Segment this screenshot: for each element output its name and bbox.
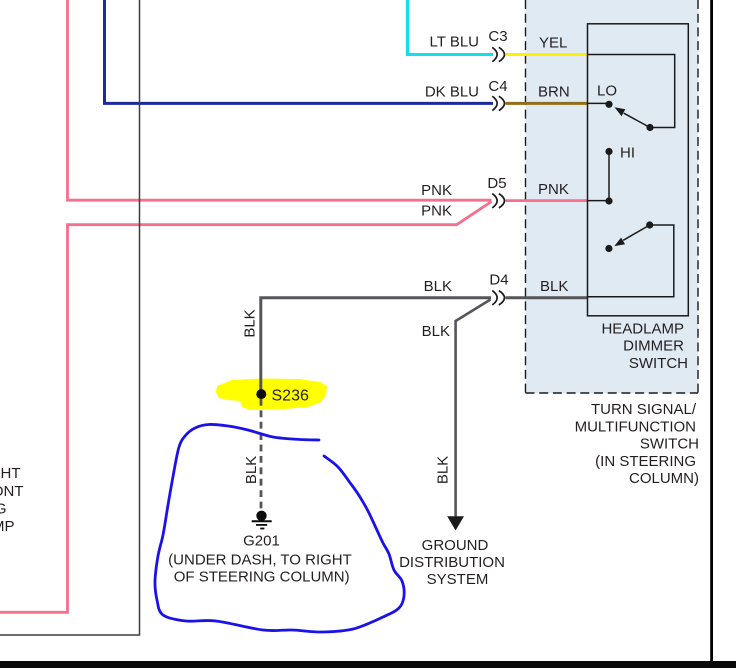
wire YEL (connector C3 to switch) <box>506 53 588 56</box>
svg-text:LO: LO <box>597 83 617 100</box>
wire internal HI to PNK <box>608 152 610 202</box>
wire internal BRN to LO contact <box>588 102 610 104</box>
wire internal LO loop <box>588 55 675 128</box>
wire BLK (connector D4 to switch) <box>506 296 588 299</box>
connector D5 <box>492 194 504 208</box>
svg-text:G201: G201 <box>243 533 280 550</box>
connector C4 <box>492 96 504 110</box>
svg-text:DIMMER: DIMMER <box>623 338 684 355</box>
svg-text:(UNDER DASH, TO RIGHT: (UNDER DASH, TO RIGHT <box>168 552 352 569</box>
connector D4 <box>492 291 504 305</box>
svg-text:BLK: BLK <box>422 323 450 340</box>
wire DK BLU <box>105 0 494 103</box>
svg-text:MP: MP <box>0 518 15 535</box>
svg-text:SWITCH: SWITCH <box>629 355 688 372</box>
svg-text:GROUND: GROUND <box>422 537 489 554</box>
svg-text:BLK: BLK <box>435 456 452 484</box>
dashed border right (turn signal switch) <box>697 0 699 393</box>
svg-text:PNK: PNK <box>421 203 452 220</box>
dashed border left (turn signal switch) <box>525 0 527 393</box>
wire BRN (connector C4 to switch) <box>506 102 588 105</box>
wire PNK (connector D5 to switch) <box>506 199 588 202</box>
node HI contact <box>605 148 612 155</box>
left component box outline (gray) <box>0 0 140 635</box>
switch arm lower (arrow) <box>623 225 650 240</box>
svg-text:S236: S236 <box>272 388 309 405</box>
page border bottom bar <box>0 661 736 668</box>
highlighter mark over S236 <box>216 379 327 411</box>
wire BLK to splice S236 <box>261 298 491 390</box>
svg-text:D5: D5 <box>487 175 506 192</box>
svg-text:BRN: BRN <box>538 84 570 101</box>
node PNK entry <box>605 197 612 204</box>
svg-text:HI: HI <box>620 145 635 162</box>
node S236 splice <box>256 389 266 399</box>
svg-text:HT: HT <box>1 465 21 482</box>
wire BLK to ground distribution <box>456 300 491 518</box>
ground G201 symbol <box>252 511 272 529</box>
svg-text:ONT: ONT <box>0 483 24 500</box>
node LO pivot <box>646 124 653 131</box>
svg-text:LT BLU: LT BLU <box>430 34 479 51</box>
switch arm LO (arrow) <box>624 113 650 127</box>
svg-text:TURN SIGNAL/: TURN SIGNAL/ <box>591 401 697 418</box>
node lower contact <box>605 245 612 252</box>
svg-text:BLK: BLK <box>424 278 452 295</box>
wire LT BLU <box>408 0 494 55</box>
svg-text:MULTIFUNCTION: MULTIFUNCTION <box>575 418 696 435</box>
wire BLK dashed to ground <box>260 399 263 510</box>
svg-text:PNK: PNK <box>538 181 569 198</box>
svg-text:COLUMN): COLUMN) <box>629 470 699 487</box>
svg-text:SWITCH: SWITCH <box>640 436 699 453</box>
svg-text:HEADLAMP: HEADLAMP <box>601 321 684 338</box>
svg-text:DK BLU: DK BLU <box>425 84 479 101</box>
svg-text:D4: D4 <box>489 272 508 289</box>
svg-text:DISTRIBUTION: DISTRIBUTION <box>399 554 505 571</box>
svg-text:OF STEERING COLUMN): OF STEERING COLUMN) <box>174 569 350 586</box>
node lower pivot <box>646 221 653 228</box>
headlamp dimmer switch box <box>588 24 689 316</box>
wire internal PNK entry <box>588 200 610 202</box>
turn signal / multifunction switch shaded region <box>526 0 699 393</box>
svg-text:YEL: YEL <box>539 35 567 52</box>
wire internal lower loop to BLK <box>588 225 674 297</box>
svg-text:BLK: BLK <box>242 309 259 337</box>
arrowhead ground distribution <box>447 516 464 530</box>
svg-text:BLK: BLK <box>540 278 568 295</box>
svg-text:G: G <box>0 501 7 518</box>
page border right <box>710 0 713 661</box>
svg-text:C3: C3 <box>488 28 507 45</box>
wire PNK upper (from left component) <box>68 0 492 200</box>
svg-text:BLK: BLK <box>243 456 260 484</box>
dashed border bottom (turn signal switch) <box>526 392 699 394</box>
svg-text:PNK: PNK <box>421 182 452 199</box>
node LO contact <box>605 101 612 108</box>
svg-text:C4: C4 <box>488 78 507 95</box>
pen annotation loop around G201 <box>155 424 404 632</box>
wire PNK lower (loop to left component) <box>0 202 492 613</box>
connector C3 <box>492 47 504 61</box>
svg-text:SYSTEM: SYSTEM <box>427 571 489 588</box>
svg-text:(IN STEERING: (IN STEERING <box>595 453 696 470</box>
